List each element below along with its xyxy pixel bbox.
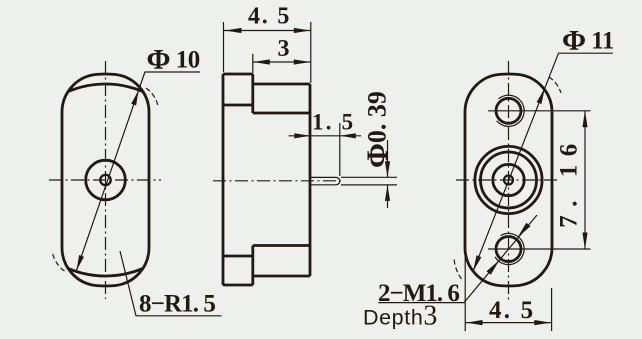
- right view: flange outline: [465, 74, 552, 286]
- dimension phi11 lower arrow: [473, 255, 481, 271]
- middle view: flange bottom edge: [223, 284, 253, 287]
- dimension phi10 top arrow: [131, 90, 139, 106]
- right view: center pin circle: [504, 176, 513, 185]
- svg-text:3: 3: [278, 36, 290, 62]
- label 2-M1.6 leader line: [378, 215, 537, 303]
- dimension 1.5 left arrow: [294, 133, 310, 138]
- label 2-M1.6 leader arrow lower: [487, 260, 500, 275]
- dimension 1.5 right arrow: [340, 133, 356, 138]
- dimension 4.5 extension line right: [310, 22, 312, 83]
- middle view: body tangent line bottom: [253, 244, 310, 247]
- svg-text:4. 5: 4. 5: [489, 297, 535, 324]
- left view: center pin circle: [100, 175, 110, 185]
- dimension 4.5 line: [224, 30, 311, 32]
- left view: vertical centerline: [105, 61, 107, 299]
- dimension 4.5 bottom extension line left: [464, 248, 466, 331]
- dimension phi0.39 extension line top: [341, 176, 397, 178]
- svg-text:Depth3: Depth3: [363, 301, 437, 332]
- right view: center boss outer circle: [475, 146, 542, 213]
- middle view: body tangent line top: [253, 112, 310, 115]
- right view: bottom hole thread arc: [495, 233, 524, 264]
- label 8-R1.5 leader: [120, 251, 222, 316]
- dimension phi10 line: [77, 72, 201, 271]
- dimension phi0.39 bottom arrow: [385, 185, 390, 201]
- dimension phi0.39 top arrow: [385, 161, 390, 177]
- left view: dashed corner arc top-right: [146, 88, 158, 106]
- svg-text:Φ 11: Φ 11: [562, 25, 614, 57]
- right view: bottom mounting hole: [496, 237, 521, 262]
- svg-text:4. 5: 4. 5: [248, 4, 291, 30]
- dimension 4.5 bottom line: [465, 322, 551, 324]
- dimension phi11 line: [473, 53, 613, 271]
- svg-text:8−R1. 5: 8−R1. 5: [139, 291, 215, 318]
- dimension 3 line: [253, 61, 311, 63]
- dimension 3 left arrow: [253, 59, 269, 64]
- middle view: flange left edge: [222, 74, 225, 285]
- middle view: body top edge: [253, 83, 310, 86]
- left view: horizontal centerline: [49, 179, 161, 181]
- dimension 7.16 bottom arrow: [582, 233, 587, 250]
- dimension 3 right arrow: [294, 59, 311, 64]
- right view: vertical centerline: [508, 61, 510, 300]
- middle view: flange tangent line bottom: [223, 255, 253, 258]
- right view: horizontal centerline: [456, 179, 560, 181]
- dimension 3 extension line: [252, 54, 254, 73]
- right view: center boss second circle: [481, 152, 537, 208]
- dimension 7.16 line: [584, 111, 586, 249]
- dimension 4.5 bottom extension line right: [551, 288, 553, 331]
- middle view: horizontal centerline: [213, 180, 341, 182]
- svg-text:Φ0. 39: Φ0. 39: [361, 91, 394, 168]
- dimension phi0.39 line lower: [387, 185, 389, 208]
- left view: body silhouette bottom arc: [68, 268, 143, 276]
- svg-text:2−M1. 6: 2−M1. 6: [378, 280, 459, 307]
- dimension 1.5 line: [289, 135, 362, 137]
- svg-text:1. 5: 1. 5: [312, 110, 355, 135]
- dimension 4.5 right arrow: [294, 28, 311, 33]
- svg-text:7. 16: 7. 16: [556, 135, 583, 228]
- middle view: body right edge: [309, 84, 312, 276]
- label 2-M1.6 leader arrow upper: [518, 223, 531, 238]
- dimension phi10 bottom arrow: [77, 255, 85, 271]
- dimension 4.5 left arrow: [225, 28, 242, 33]
- right view: top hole centerline / 7.16 extension: [488, 110, 591, 112]
- left view: body silhouette top arc: [68, 84, 143, 92]
- left view: center hole outer circle: [86, 160, 126, 200]
- left view: flange outline: [62, 74, 149, 286]
- right view: bottom hole centerline / 7.16 extension: [488, 248, 591, 250]
- middle view: contact pin: [310, 177, 340, 184]
- middle view: body bottom edge: [253, 275, 310, 278]
- right view: top hole thread arc: [497, 95, 525, 126]
- dimension 4.5 extension line left: [223, 22, 225, 72]
- dimension 7.16 top arrow: [582, 111, 587, 128]
- middle view: flange/body interface top: [251, 74, 254, 113]
- dimension 4.5 bottom left arrow: [466, 320, 483, 325]
- middle view: flange/body interface bottom: [251, 246, 254, 286]
- dimension phi0.39 line upper: [387, 140, 389, 177]
- svg-text:Φ 10: Φ 10: [147, 44, 200, 76]
- right view: dashed corner arc bottom-left: [454, 258, 462, 279]
- right view: center insulator circle: [493, 164, 524, 195]
- dimension phi11 upper arrow: [537, 88, 545, 104]
- middle view: flange top edge: [223, 73, 253, 76]
- right view: top mounting hole: [496, 98, 521, 123]
- middle view: flange tangent line top: [223, 104, 253, 107]
- dimension 4.5 bottom right arrow: [534, 320, 551, 325]
- left view: dashed corner arc bottom-left: [53, 253, 65, 271]
- dimension phi0.39 extension line bottom: [341, 184, 397, 186]
- right view: dashed corner arc top-right: [549, 77, 561, 93]
- dimension 1.5 extension line pin end: [339, 123, 341, 176]
